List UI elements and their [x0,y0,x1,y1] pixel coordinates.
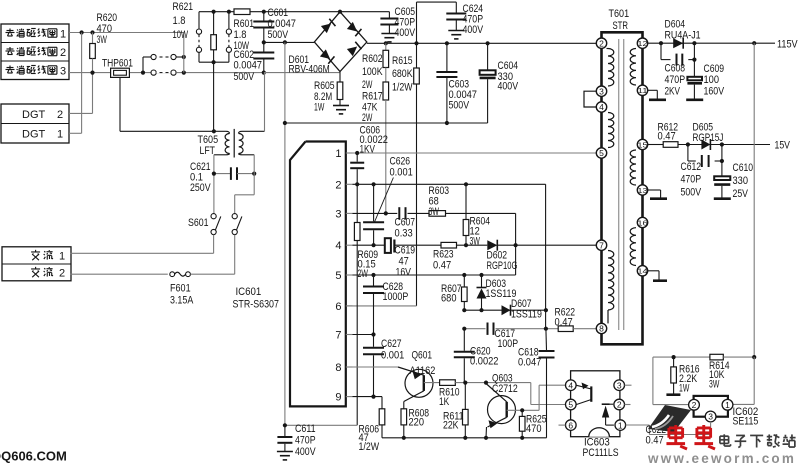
svg-text:3W: 3W [470,236,481,248]
T601 bottom bracket [602,276,643,344]
T605 left winding [214,130,226,132]
svg-text:15: 15 [637,140,647,149]
svg-text:T601: T601 [609,8,630,20]
resistor R601 (horizontal, in rail) [234,9,250,15]
wire degauss-1 row [69,32,184,34]
svg-text:5: 5 [335,270,341,282]
node R601-switch top [227,10,231,14]
T601 pin 7 [596,240,606,250]
pin5 corner up to pin4 node [515,245,517,275]
svg-text:RGP15J: RGP15J [693,132,724,144]
T601 pin 4 [596,102,606,112]
relay bypass switch left of R621 [198,12,200,29]
watermark red 虫虫 [669,426,683,429]
svg-text:R621: R621 [173,1,194,13]
node on degauss-1 wire (DGT1 riser) [80,30,84,34]
T601 pin 2 [596,38,606,48]
T601 secondary winding 15-13 [630,150,636,185]
IC601 pin 1 stub [346,152,353,154]
node on degauss-1 wire (R620 top) [90,30,94,34]
T601 pin14 ground [648,270,659,272]
node R616 top [672,355,676,359]
svg-text:1.8: 1.8 [173,15,186,27]
node C612 right [720,142,724,146]
svg-text:100P: 100P [498,338,519,350]
IC601 pin 2 stub [346,183,353,185]
resistor R605 (bridge bleeder) [339,72,341,83]
T601 pin 11 [637,85,647,95]
startup resistor R615 680K [416,43,418,68]
svg-text:STR-S6307: STR-S6307 [233,299,279,311]
T601 secondary winding 16-14 [630,228,636,266]
resistor R620 (vertical) [92,33,94,44]
T601 pin 13 [637,185,647,195]
svg-text:470P: 470P [665,74,686,86]
svg-text:2KV: 2KV [665,86,681,98]
svg-text:SE115: SE115 [733,416,759,428]
svg-text:6: 6 [335,301,341,313]
T601 secondary winding 12-11 [630,49,636,86]
power switch S601 right pole [232,214,237,219]
pin2 bus down right side [545,184,547,328]
node C628 top on pin5 [371,273,375,277]
svg-text:3: 3 [617,380,622,390]
optocoupler IC603 PC111LS body [571,371,620,437]
svg-text:400V: 400V [295,446,316,458]
divider R617 47K [383,82,389,100]
T601 pin13 ground [648,189,661,191]
resistor R604 12 3W (pin2 to pin4) [464,182,468,186]
capacitor C620 0.0022 [463,329,465,351]
svg-text:DGT: DGT [22,109,46,121]
AC top rail y=11.7 [199,11,234,13]
svg-text:1: 1 [618,420,623,430]
node R625 bottom [520,436,524,440]
resistor R625 470 [521,410,523,416]
svg-text:Q601: Q601 [412,350,433,362]
IC603 pin 5 [566,399,577,410]
svg-text:0.001: 0.001 [381,350,404,362]
svg-text:0.47: 0.47 [555,317,573,329]
IC603 pin 2 [614,399,625,410]
IC601 pin 3 stub [346,212,353,214]
resistor R603 68 3W (in pin3 line) [429,211,446,217]
svg-text:4: 4 [568,380,573,390]
capacitor C605 (to ground) [388,12,390,18]
resistor R608 220 (Q601 collector) [401,409,407,425]
svg-text:400V: 400V [498,81,519,93]
svg-text:QQ606.COM: QQ606.COM [0,449,67,464]
transistor Q603 C2712 (NPN) [488,396,516,424]
svg-text:1: 1 [59,251,65,263]
bridge diode top-right (T to R) [347,22,357,32]
svg-text:2: 2 [59,268,65,280]
IC602 pin 3 [705,411,716,422]
svg-text:3.15A: 3.15A [170,295,194,307]
Q601 base lead and R610 1K [424,382,440,384]
bridge rectifier D601 RBV-406M [314,12,366,72]
node R611 top [463,381,467,385]
svg-text:C608: C608 [665,63,686,75]
primary ground rail y=123 [285,122,488,124]
feedback line from 115V rail [753,43,755,357]
T601 primary winding pins 2-3 [608,49,614,87]
svg-text:2W: 2W [362,112,373,124]
resistor R621 (vertical) [213,12,215,35]
svg-text:A1162: A1162 [410,365,436,377]
wire T605 right bottom to switch [253,155,255,195]
svg-text:1: 1 [725,400,730,410]
node C602 bottom [262,71,266,75]
svg-text:1: 1 [60,29,66,41]
T601 pin 5 [596,148,606,158]
svg-text:2W: 2W [362,79,373,91]
svg-text:500V: 500V [449,100,470,112]
svg-text:2: 2 [599,38,604,48]
T601 winding pins 7-8 [608,251,614,311]
T601 top bracket [602,32,643,38]
T601 left bus [600,48,603,86]
svg-text:4: 4 [599,102,604,112]
IC602 pin 1 [722,399,733,410]
svg-text:1SS119: 1SS119 [511,309,542,321]
wire T605 left bottom down [213,155,215,214]
node C612 left [686,142,690,146]
wire row to IC602 pin2 [652,357,654,405]
capacitor C606 (pin1-pin2) [356,153,358,162]
svg-text:1000P: 1000P [383,291,409,303]
capacitor C619 47uF 16V (electrolytic in pin4 line) [385,238,391,253]
T601 pin11 ground [648,89,658,91]
svg-text:500V: 500V [234,71,255,83]
node D607 row on bus [544,308,548,312]
svg-text:F601: F601 [170,283,191,295]
node C626 bottom on pin4 [372,243,376,247]
pin6 wire from R615 [346,305,417,307]
svg-text:470: 470 [526,423,542,435]
wire AC to bridge left vertex [264,41,315,43]
T601 pin 8 [596,323,606,333]
thermistor THP601 [111,68,130,77]
svg-text:1KV: 1KV [360,143,376,155]
svg-text:0.0047: 0.0047 [234,60,263,72]
resistor R622 0.47 (in row) [558,326,573,332]
node R608 bottom [402,436,406,440]
wire R621 block to T605 [213,62,215,131]
resistor R616 2.2K 1W [673,357,675,367]
capacitor C601 [262,10,266,14]
svg-text:2W: 2W [358,268,369,280]
node feedback joins row [752,355,756,359]
node bridge top vertex [338,10,342,14]
line filter T605 LFT [233,129,235,158]
IC603 pin 4 [566,380,577,391]
capacitor C607 0.33 (in pin3 line) [398,207,400,219]
svg-text:C627: C627 [381,338,402,350]
svg-text:10W: 10W [173,29,189,41]
pin5 feedback network: resistor R607 680 [463,275,465,287]
relay bypass switch right of R621 [226,29,231,34]
node Q603 emitter [484,436,488,440]
pin8 line to Q601 emitter [353,366,399,368]
T601 pin 14 [637,266,647,276]
node R615/C624 on rail [414,41,418,45]
svg-text:R615: R615 [392,55,413,67]
svg-text:470P: 470P [295,435,316,447]
wire feedback down to IC602 pin1 [753,357,755,404]
ground below C605 [381,33,397,35]
wire opto pin4 path [538,385,540,410]
node pin3-corner on pin4 [514,243,518,247]
svg-text:R602: R602 [362,53,383,65]
wire degauss-3 row [69,72,151,74]
IC603 LED [602,403,610,405]
diode D603 1SS119 (vertical) [481,275,483,287]
svg-text:0.47: 0.47 [646,435,664,447]
svg-text:220: 220 [409,417,425,429]
svg-text:C612: C612 [681,161,702,173]
svg-text:0.047: 0.047 [518,357,541,369]
IC601 pin 5 stub [346,274,353,276]
svg-text:www.eeworm.com: www.eeworm.com [647,451,796,465]
IC601 pin 8 stub [346,366,353,368]
node C620 top [462,327,466,331]
svg-text:1: 1 [335,148,341,160]
emitter ground rail y=437.8 [382,437,547,439]
capacitor C617 100P (in row) [487,323,489,335]
degauss coil connector box (去消磁线圈 1/2/3) [1,24,69,80]
svg-text:DGT: DGT [22,129,46,141]
IC603 phototransistor [590,386,592,401]
node C603 on ground rail [445,121,449,125]
T601 primary winding pins 4-5 [608,113,614,148]
ground below C624 [448,30,464,32]
svg-text:3: 3 [599,86,604,96]
svg-text:470P: 470P [681,174,702,186]
watermark 电子下载站 [720,435,729,437]
wire DGT1 riser [69,132,82,134]
IC601 pin 7 stub [346,334,353,336]
fuse F601 3.15A [71,273,168,275]
svg-text:16V: 16V [396,267,412,279]
svg-text:3: 3 [60,66,66,78]
node row1 right [182,55,186,59]
resistor R606 47 1/2W (pin9 to emitter rail) [381,397,383,409]
svg-text:3W: 3W [97,34,108,46]
svg-text:STR: STR [613,20,629,32]
svg-text:9: 9 [335,392,341,404]
T601 pin 15 [637,139,647,149]
resistor R623 0.47 (in pin4 line) [441,242,457,248]
svg-text:7: 7 [335,330,341,342]
svg-text:3W: 3W [429,206,440,218]
svg-text:160V: 160V [704,86,725,98]
capacitor C624 (to ground) [455,2,457,12]
IC603 pin3 stub [625,384,632,386]
svg-text:RU4A-J1: RU4A-J1 [665,30,701,42]
node D603 bottom [479,308,483,312]
svg-text:100: 100 [704,74,720,86]
T601 pin 3 [596,86,606,96]
svg-text:1/2W: 1/2W [392,82,413,94]
wire to optocoupler pin5 [530,383,532,405]
IC602 pin3 wire to LED return [710,422,712,435]
node C606/R609 col on pin2 [355,182,359,186]
IC601 pin 6 stub [346,305,353,307]
node degauss row relay [141,71,145,75]
wire AC2 row to bridge bottom [264,72,340,74]
capacitor C609 100uF 160V (electrolytic) [693,60,695,77]
svg-text:2: 2 [692,400,697,410]
node D603 top on pin5 [479,273,483,277]
svg-text:RBV-406M: RBV-406M [289,64,330,76]
bridge diode bottom-left (L to B) [320,49,330,59]
IC601 STR-S6307 body [290,142,346,407]
node C611 top [283,423,287,427]
svg-text:2: 2 [617,400,622,410]
svg-text:500V: 500V [268,29,289,41]
capacitor C612 470P (across D605) [687,145,689,162]
svg-text:0.47: 0.47 [658,131,676,143]
svg-text:C610: C610 [733,162,754,174]
pin5 line [353,274,516,276]
svg-text:500V: 500V [681,187,702,199]
node T605 left top [212,129,216,133]
transistor Q601 A1162 (PNP) [405,369,433,397]
svg-text:400V: 400V [463,24,484,36]
svg-text:IC601: IC601 [236,286,262,298]
svg-text:3: 3 [708,412,713,422]
current sense R609 0.15 2W [356,184,358,222]
svg-text:RGP10G: RGP10G [487,260,518,272]
capacitor C611 470P 400V [284,425,286,436]
svg-text:100K: 100K [362,66,383,78]
T601 core lines [618,39,620,330]
node C627 bottom on pin9 [371,395,375,399]
IC601 pin 9 stub [346,396,353,398]
IC602 SE115 body [694,396,728,417]
svg-text:22K: 22K [443,420,459,432]
node Q603 collector [484,381,488,385]
T601 pins3-4 jumper [584,91,596,107]
capacitor C621 X-cap [214,173,231,175]
svg-text:0.001: 0.001 [390,167,413,179]
IC602 pin 2 [689,399,700,410]
svg-text:6: 6 [568,420,573,430]
svg-text:680: 680 [441,293,457,305]
resistor R611 22K [464,383,466,410]
svg-text:S601: S601 [188,217,209,229]
capacitor C628 1000P (pin5-pin7) [373,275,375,286]
svg-text:330: 330 [733,175,749,187]
relay contact row2 (on degauss-3 wire) [151,70,156,75]
svg-text:1K: 1K [439,396,450,408]
node R621 top [212,10,216,14]
node ground rail left end [283,121,287,125]
svg-text:THP601: THP601 [102,58,133,70]
svg-text:15V: 15V [775,140,791,152]
node R607 top on pin5 [462,273,466,277]
svg-text:25V: 25V [733,188,749,200]
svg-text:7: 7 [599,240,604,250]
svg-text:1: 1 [57,129,63,141]
svg-text:C611: C611 [295,423,316,435]
pin1 line to transformer pin5 [353,152,597,154]
node bridge-minus to ground riser [283,40,287,44]
watermark black ribbon [648,405,691,432]
svg-text:2: 2 [57,109,63,121]
svg-text:0.0022: 0.0022 [470,356,499,368]
115V rectifier D604 RU4A-J1 [648,42,775,44]
svg-text:LFT: LFT [200,145,216,157]
diode D602 RGP10G (in pin4 line) [487,240,497,250]
pin2 line to right bus [353,183,546,185]
node C606 top on pin1 [355,151,359,155]
wire DGT2 riser [69,112,93,114]
IC601 pin 4 stub [346,244,353,246]
svg-text:PC111LS: PC111LS [583,447,619,459]
wire C602 node down to T605 right [264,73,266,132]
IC603 pin1 wire [626,424,650,426]
regulator supply row y=357.1 [653,356,710,358]
svg-text:8: 8 [599,324,604,334]
svg-text:1W: 1W [314,102,325,114]
IC603 pin2 stub [625,404,631,406]
node C626 top on pin2 [372,182,376,186]
svg-text:8: 8 [335,362,341,374]
node R620 bottom [90,71,94,75]
R621 block bottom bus [199,61,229,63]
15V line resistor R612 0.47 [648,144,664,146]
svg-text:3W: 3W [709,379,720,391]
node R617 bottom on pin3 [384,211,388,215]
svg-text:115V: 115V [777,39,798,51]
T601 pin 16 [637,217,647,227]
capacitor C626 0.001 (pin2-pin4) [373,184,375,221]
svg-text:0.47: 0.47 [433,260,451,272]
IC603 pin 1 [615,420,626,431]
svg-text:11: 11 [637,86,647,95]
svg-text:5: 5 [599,148,604,158]
pin4 line [353,244,385,246]
node R604 bottom on pin4 [464,243,468,247]
svg-text:4: 4 [335,240,341,252]
pin7 line [353,334,374,336]
main filter cap C604 330uF (electrolytic) [486,41,490,45]
capacitor C618 0.047 [545,329,548,350]
svg-text:2: 2 [335,179,341,191]
ground below C611 [277,451,293,453]
T601 pin 12 [637,38,647,48]
B+ rail y=43.3 [367,42,597,44]
svg-text:3: 3 [335,208,341,220]
svg-text:250V: 250V [190,182,211,194]
wire top link to C624 [416,2,418,43]
capacitor C602 [263,42,265,51]
capacitor C610 330uF 25V (electrolytic) [721,161,723,176]
15V rectifier D605 RGP15J [701,140,710,150]
divider R602 100K [384,41,388,45]
bridge diode bottom-right (B to R) [347,46,357,56]
IC603 pin6 stub [559,424,566,426]
T605 right winding [242,130,265,132]
node C627 top on pin7 [371,332,375,336]
resistor R614 10K 3W (in row) [710,354,723,360]
capacitor C608 470P 2KV (across D604) [660,43,662,59]
bridge diode top-left (L to T) [321,23,331,33]
svg-text:16: 16 [637,218,647,227]
power switch S601 left pole [211,214,216,219]
